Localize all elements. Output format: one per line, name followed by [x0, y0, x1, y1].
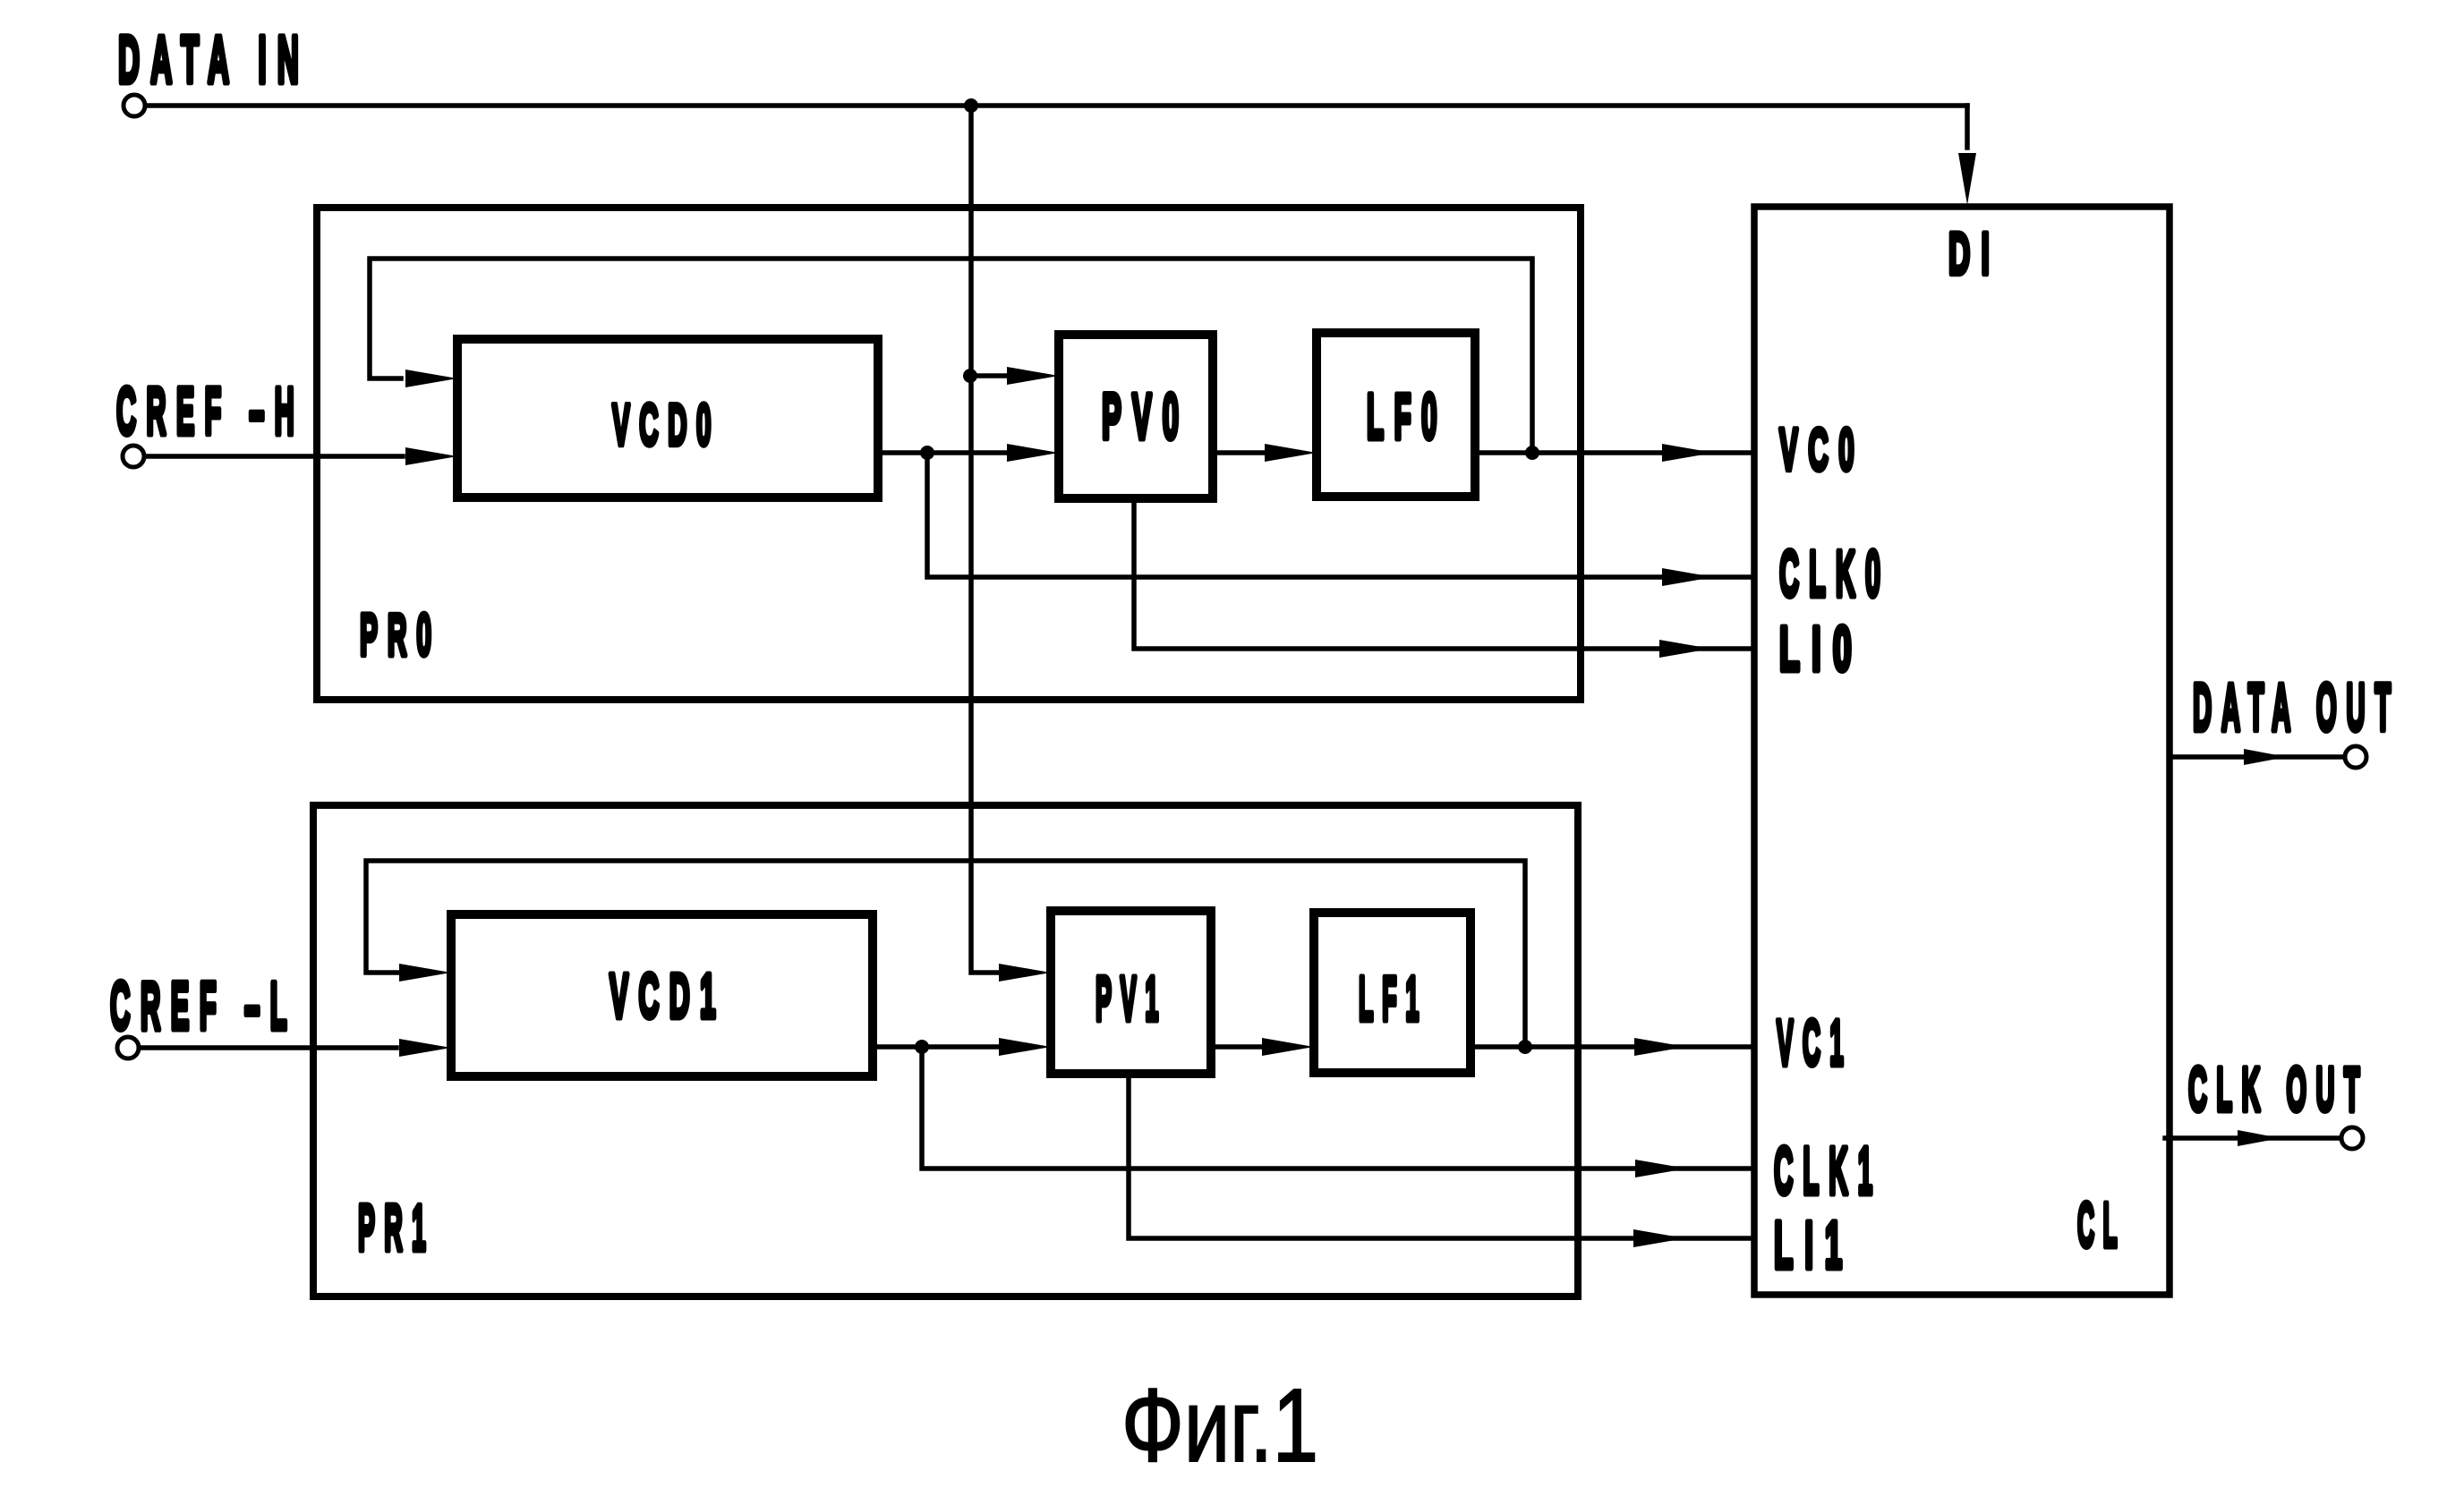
svg-text:LF1: LF1 — [1359, 964, 1428, 1033]
block LF0 — [1317, 333, 1475, 497]
wire PV0 to LF0 — [1213, 450, 1265, 455]
arrow into CL top (DI) — [1958, 153, 1976, 205]
block PR1 — [313, 805, 1578, 1296]
svg-text:VC0: VC0 — [1779, 416, 1864, 482]
svg-text:PR1: PR1 — [358, 1193, 435, 1264]
wire LI1 from PV1 bottom to CL — [1129, 1074, 1752, 1238]
svg-text:CLK1: CLK1 — [1774, 1134, 1882, 1208]
block PV1 — [1051, 911, 1211, 1074]
arrow into CL LI0 — [1659, 640, 1711, 658]
arrow into CL VC1 — [1634, 1038, 1686, 1056]
svg-text:PR0: PR0 — [360, 601, 441, 667]
wire PR1 feedback loop from LF1 output to VCD1 upper input — [366, 861, 1525, 1047]
svg-text:PV1: PV1 — [1096, 964, 1167, 1033]
arrow into CL LI1 — [1633, 1229, 1685, 1247]
svg-text:PV0: PV0 — [1102, 382, 1189, 453]
svg-text:VCD1: VCD1 — [610, 961, 726, 1031]
wire CLK OUT — [2165, 1135, 2340, 1141]
arrow into PV1 lower input — [999, 1038, 1051, 1056]
svg-text:Фиг.1: Фиг.1 — [1121, 1367, 1318, 1483]
wire VCD0 output to PV0 — [878, 450, 1007, 455]
block VCD0 — [457, 339, 878, 497]
junction LF1 output feedback — [1518, 1040, 1532, 1054]
terminal DATA IN — [124, 95, 145, 116]
terminal DATA OUT — [2345, 746, 2366, 768]
wire VCD1 output to PV1 — [873, 1044, 999, 1050]
wire CLK1 from VCD1 output branch to CL — [922, 1047, 1752, 1169]
wire DATA IN vertical drop — [971, 106, 999, 973]
block LF1 — [1314, 913, 1471, 1073]
wire DATA IN turn down to CL — [1965, 106, 1970, 148]
arrow DATA OUT — [2244, 749, 2287, 765]
arrow into CL CLK1 — [1635, 1160, 1687, 1177]
svg-text:DI: DI — [1948, 220, 2000, 286]
arrow into PV0 lower input — [1007, 444, 1059, 462]
svg-text:CL: CL — [2077, 1190, 2126, 1260]
wire branch to PV0 upper input — [970, 373, 1007, 378]
arrow into CL VC0 — [1662, 444, 1714, 462]
arrow into VCD1 lower input — [399, 1039, 451, 1057]
terminal CREF -H — [123, 446, 144, 467]
svg-text:CREF –H: CREF –H — [116, 374, 304, 448]
junction DATA IN branch — [964, 98, 978, 113]
wire CREF -L into VCD1 — [140, 1045, 396, 1050]
wire PV1 to LF1 — [1211, 1044, 1262, 1050]
svg-text:VC1: VC1 — [1777, 1008, 1853, 1079]
svg-text:DATA IN: DATA IN — [118, 22, 310, 97]
junction DATA IN to PV0 branch — [963, 369, 977, 383]
arrow into PV1 upper input — [999, 964, 1051, 982]
svg-text:LF0: LF0 — [1367, 382, 1447, 453]
terminal CLK OUT — [2341, 1127, 2363, 1149]
block PR0 — [317, 208, 1581, 700]
junction VCD1 output CLK1 branch — [915, 1040, 929, 1054]
block PV0 — [1059, 335, 1213, 498]
block CL — [1754, 207, 2170, 1295]
arrow into LF1 — [1262, 1038, 1314, 1056]
arrow into PV0 upper input — [1007, 367, 1059, 385]
svg-text:CLK0: CLK0 — [1779, 539, 1890, 610]
wire CLK0 from VCD0 output branch to CL — [927, 453, 1752, 577]
arrow into VCD0 lower input — [405, 447, 457, 465]
arrow into VCD0 upper input — [405, 370, 457, 387]
svg-text:LI1: LI1 — [1774, 1208, 1854, 1282]
junction LF0 output feedback — [1525, 446, 1539, 460]
arrow into VCD1 upper input — [399, 964, 451, 982]
svg-text:LI0: LI0 — [1779, 614, 1863, 684]
wire LI0 from PV0 bottom to CL — [1134, 498, 1752, 649]
svg-text:CREF –L: CREF –L — [110, 968, 297, 1043]
arrow CLK OUT — [2238, 1130, 2281, 1146]
wire DATA IN horizontal — [146, 103, 1967, 108]
arrow into CL CLK0 — [1662, 568, 1714, 586]
terminal CREF -L — [117, 1037, 139, 1058]
svg-text:DATA OUT: DATA OUT — [2193, 670, 2400, 744]
arrow into LF0 — [1265, 444, 1317, 462]
wire CREF -H into VCD0 — [145, 454, 403, 459]
wire LF0 output to CL VC0 input — [1475, 450, 1752, 455]
svg-text:CLK OUT: CLK OUT — [2188, 1055, 2369, 1124]
svg-text:VCD0: VCD0 — [612, 392, 720, 457]
wire PR0 feedback loop from LF0 output to VCD0 upper input — [370, 259, 1532, 453]
wire LF1 output to CL VC1 input — [1471, 1044, 1752, 1050]
junction VCD0 output CLK0 branch — [920, 446, 934, 460]
block VCD1 — [451, 914, 873, 1076]
wire DATA OUT — [2170, 754, 2344, 760]
